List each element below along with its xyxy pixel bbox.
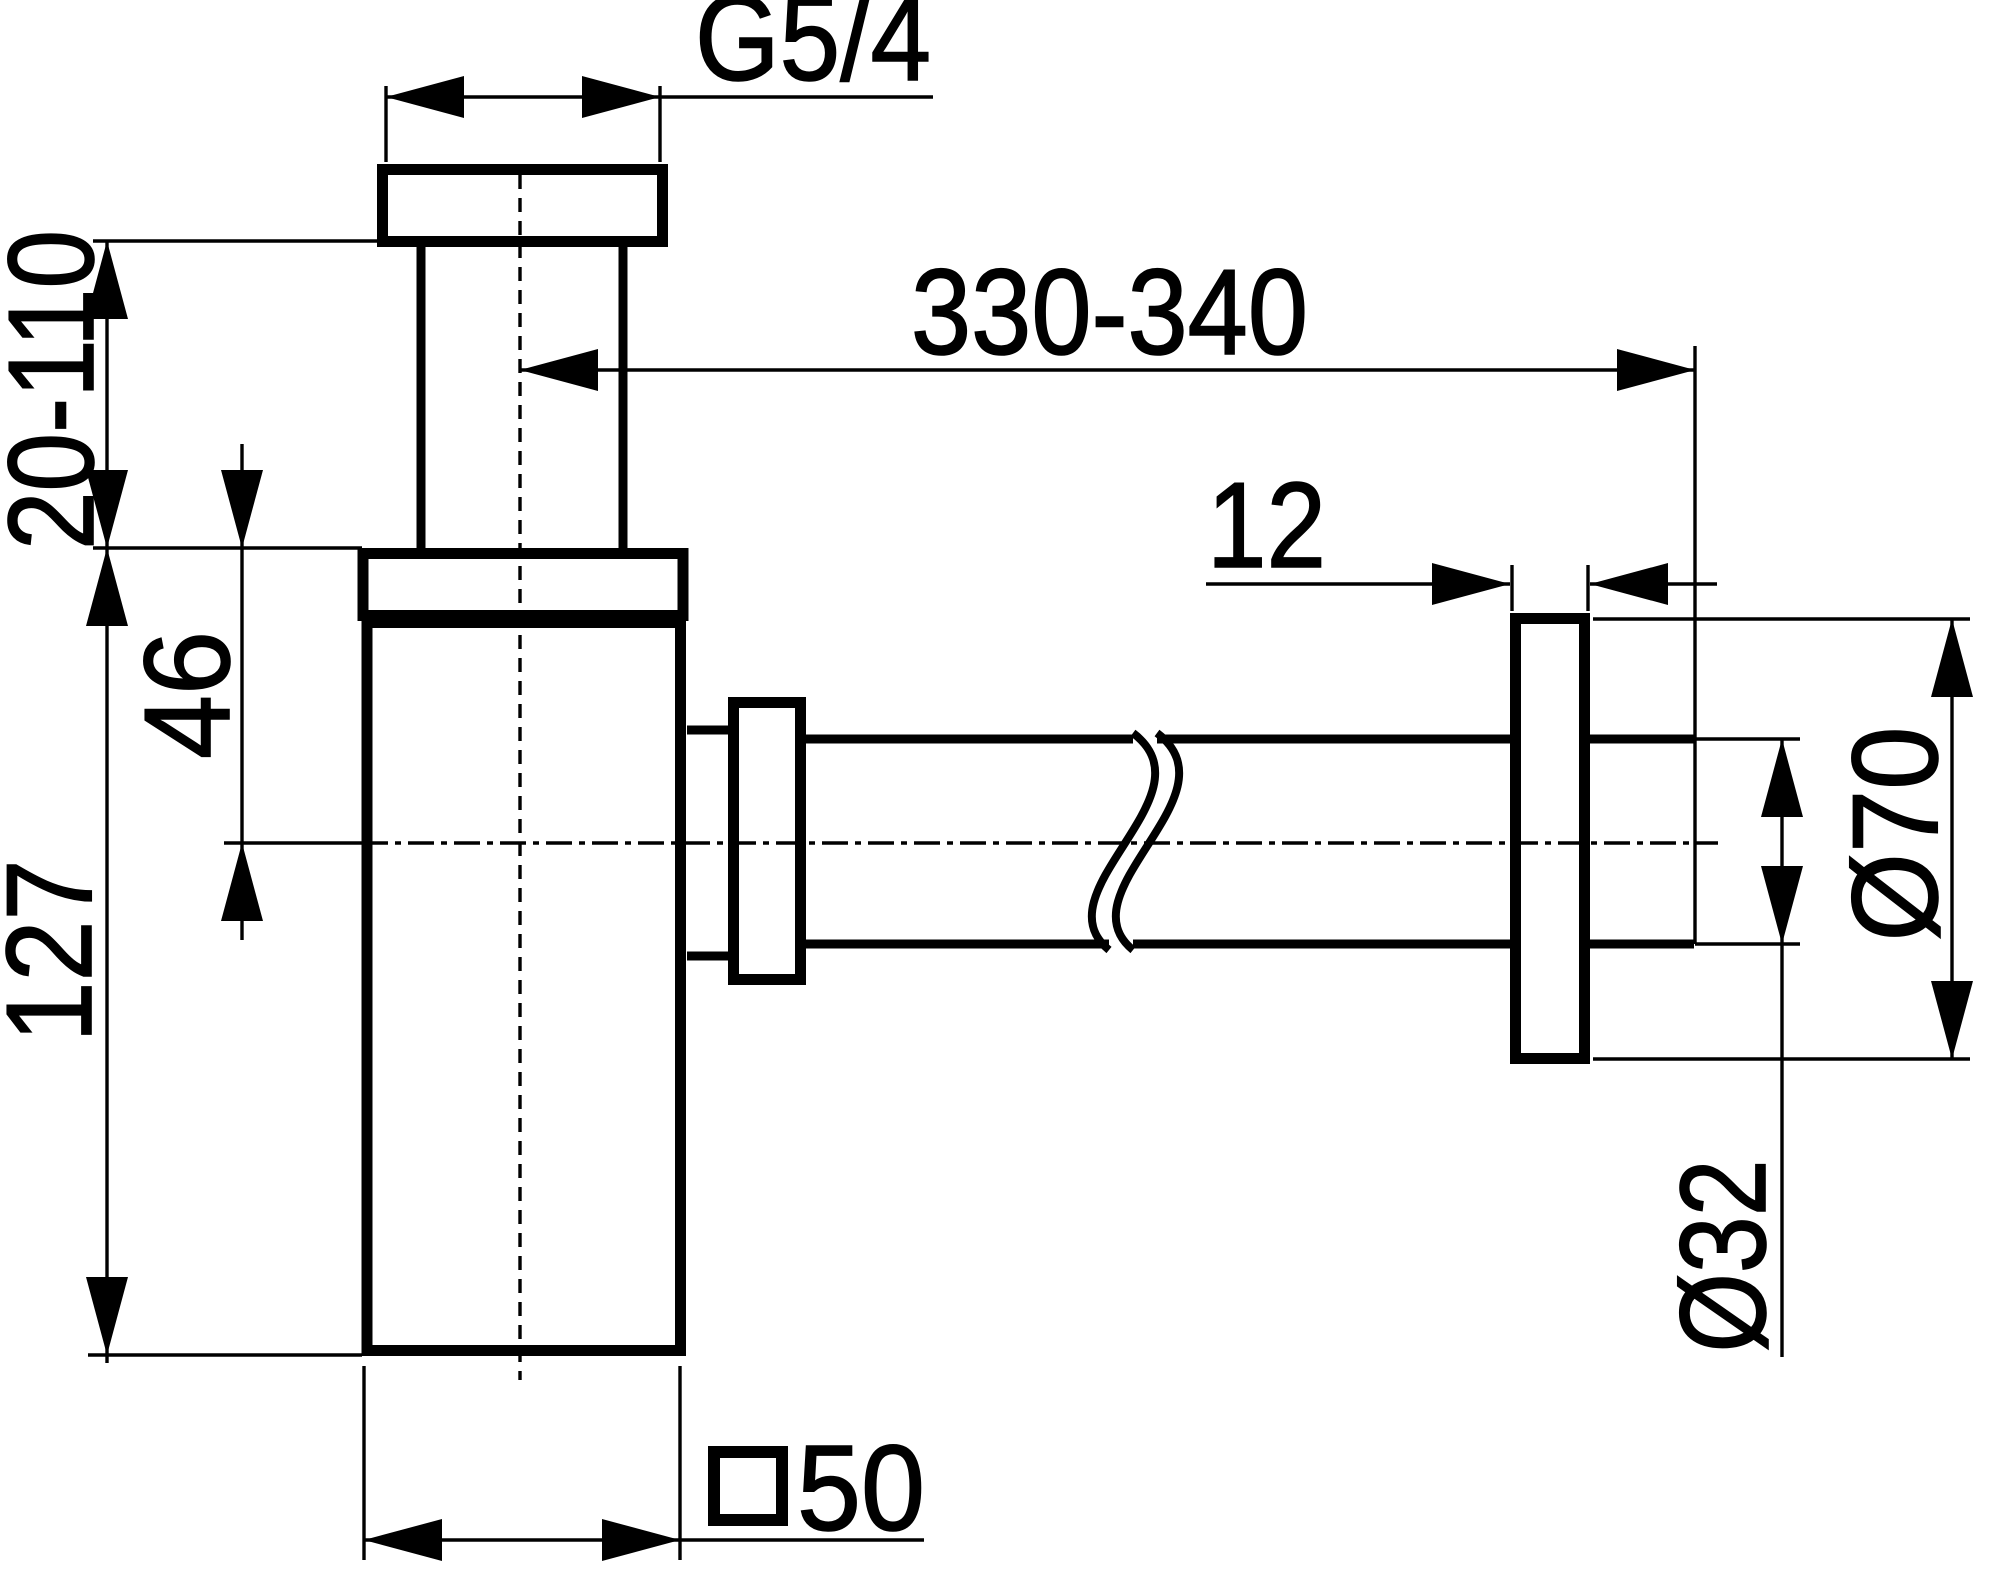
pipe break symbol right curve bbox=[1116, 733, 1179, 950]
compression nut bbox=[734, 703, 801, 980]
outlet pipe top edge bbox=[806, 735, 1694, 744]
outlet pipe bottom edge bbox=[806, 940, 1694, 949]
vertical centerline (dashed) bbox=[518, 175, 521, 1380]
outlet stub upper edge bbox=[687, 726, 728, 735]
diameter-70 arrow bottom bbox=[1931, 981, 1973, 1059]
20-110 arrow top bbox=[86, 241, 128, 319]
square-50 arrow right bbox=[602, 1519, 680, 1561]
330-340 dimension line bbox=[520, 368, 1695, 371]
diameter-70 dimension line bbox=[1950, 619, 1953, 1059]
square-50 extension line right bbox=[678, 1366, 681, 1560]
diameter-32 arrow top bbox=[1761, 739, 1803, 817]
svg-text:12: 12 bbox=[1207, 457, 1326, 593]
diameter-32 top extension line bbox=[1695, 737, 1800, 740]
127 arrow top bbox=[86, 548, 128, 626]
12 extension line right bbox=[1586, 565, 1589, 611]
127 arrow bottom bbox=[86, 1277, 128, 1355]
G5/4 arrow left bbox=[386, 76, 464, 118]
svg-text:Ø70: Ø70 bbox=[1827, 727, 1963, 942]
square-50 extension line left bbox=[362, 1366, 365, 1560]
horizontal axis centerline (dash-dot) bbox=[362, 841, 1718, 844]
inlet pipe right wall bbox=[619, 247, 628, 548]
12 extension line left bbox=[1510, 565, 1513, 611]
330-340 arrow left bbox=[520, 349, 598, 391]
svg-text:50: 50 bbox=[797, 1420, 925, 1556]
svg-text:Ø32: Ø32 bbox=[1655, 1160, 1791, 1353]
46 arrow bottom (pointing up) bbox=[221, 843, 263, 921]
wall flange bbox=[1516, 619, 1585, 1059]
G5/4 arrow right bbox=[582, 76, 660, 118]
svg-text:330-340: 330-340 bbox=[911, 244, 1308, 380]
diameter-32 arrow bottom bbox=[1761, 866, 1803, 944]
20-110 dimension line bbox=[105, 241, 108, 548]
127 bottom extension line bbox=[88, 1353, 362, 1356]
20-110 arrow bottom bbox=[86, 470, 128, 548]
top inlet nut (G5/4 flange) bbox=[383, 170, 663, 242]
shared extension line at body top bbox=[93, 546, 362, 549]
diameter-70 arrow top bbox=[1931, 619, 1973, 697]
127 dimension line bbox=[105, 548, 108, 1363]
G5/4 dimension line bbox=[386, 95, 933, 98]
body top flange bbox=[363, 554, 683, 616]
pipe break symbol left curve bbox=[1092, 733, 1155, 950]
svg-text:G5/4: G5/4 bbox=[695, 0, 931, 106]
46 arrow top (pointing down) bbox=[221, 470, 263, 548]
20-110 top extension line bbox=[93, 239, 380, 242]
svg-text:127: 127 bbox=[0, 860, 117, 1043]
square symbol bbox=[714, 1452, 782, 1520]
diameter-70 bottom extension line bbox=[1593, 1057, 1970, 1060]
330-340 right extension / pipe end cap bbox=[1693, 346, 1696, 944]
12 arrow left bbox=[1432, 563, 1510, 605]
trap body bbox=[367, 623, 681, 1351]
inlet pipe left wall bbox=[417, 247, 426, 548]
outlet stub lower edge bbox=[687, 952, 728, 961]
46 dimension line bbox=[240, 444, 243, 940]
G5/4 extension line left bbox=[384, 86, 387, 162]
square-50 dimension line bbox=[364, 1538, 924, 1541]
svg-text:20-110: 20-110 bbox=[0, 230, 119, 550]
12 dimension line right part bbox=[1590, 582, 1717, 585]
G5/4 extension line right bbox=[658, 86, 661, 162]
svg-text:46: 46 bbox=[119, 631, 255, 759]
square-50 arrow left bbox=[364, 1519, 442, 1561]
diameter-32 bottom extension line bbox=[1695, 942, 1800, 945]
12 arrow right bbox=[1590, 563, 1668, 605]
horizontal axis centerline solid left segment bbox=[224, 841, 362, 844]
diameter-70 top extension line bbox=[1593, 617, 1970, 620]
12 dimension line left part bbox=[1206, 582, 1510, 585]
diameter-32 dimension line bbox=[1780, 739, 1783, 1357]
330-340 arrow right bbox=[1617, 349, 1695, 391]
